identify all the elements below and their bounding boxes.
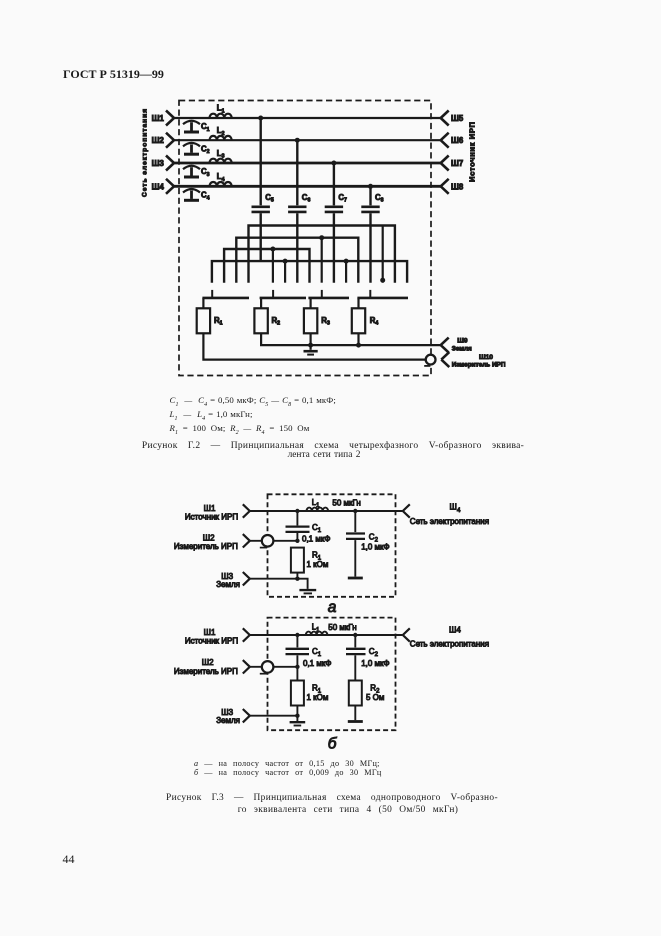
coaxial connector circle Sh10: [424, 355, 435, 366]
comb tooth on bus 4: [284, 261, 286, 283]
svg-text:Земля: Земля: [216, 580, 240, 589]
page header: [63, 67, 164, 82]
link bar to R1: [202, 290, 249, 298]
svg-text:0,1 мкФ: 0,1 мкФ: [303, 659, 331, 668]
inductor L1 (b): [306, 632, 328, 635]
inductor L2: [210, 136, 232, 140]
terminal Sh3 (b): [243, 709, 250, 722]
svg-text:C5: C5: [265, 193, 274, 204]
svg-text:Сеть электропитания: Сеть электропитания: [410, 639, 489, 648]
wire Sh2 to node C1/R1 (b): [250, 666, 298, 668]
junction bus4 right tooth: [344, 259, 349, 264]
junction Sh2/C1/R1 (b): [295, 665, 299, 669]
svg-text:Земля: Земля: [452, 346, 472, 353]
junction bus4 tooth: [283, 259, 288, 264]
terminal Sh1 (a): [243, 504, 250, 517]
terminal Sh2 (a): [243, 534, 250, 547]
junction C2 branch (b): [353, 633, 357, 637]
svg-text:L4: L4: [217, 172, 225, 183]
terminal Sh6: [441, 133, 449, 148]
svg-text:1 кОм: 1 кОм: [307, 693, 329, 702]
svg-text:Источник ИРП: Источник ИРП: [185, 636, 238, 645]
resistor R1 (b): [291, 667, 304, 716]
capacitor C1 (b): [286, 635, 310, 667]
capacitor C1 (a): [286, 511, 310, 541]
comb tooth on bus 2: [321, 238, 323, 283]
terminal Sh8: [441, 179, 449, 194]
wire Sh3 (b): [250, 715, 298, 717]
earth symbol (a): [297, 579, 316, 594]
svg-text:L3: L3: [217, 149, 225, 160]
svg-text:C2: C2: [369, 647, 379, 658]
capacitor C4: [183, 189, 200, 200]
terminal Sh1: [166, 111, 174, 126]
svg-text:Измеритель ИРП: Измеритель ИРП: [174, 542, 238, 551]
junction R3 on earth wire: [308, 343, 313, 348]
terminal Sh1 (b): [243, 628, 250, 641]
svg-text:Ш3: Ш3: [152, 159, 165, 168]
junction R1/Sh3 (b): [295, 714, 299, 718]
wire drop from phase 2 to C6: [296, 140, 298, 205]
junction bus2 tooth: [319, 235, 324, 240]
svg-text:C3: C3: [201, 167, 210, 178]
wire Sh2 to node C1/R1 (a): [250, 540, 298, 542]
wire R2/R4 to earth terminal Sh9: [261, 333, 441, 345]
wire drop from phase 1 to C5: [260, 118, 262, 205]
wire C5 to bus 4: [260, 213, 262, 261]
resistor R3: [304, 298, 317, 333]
earth symbol under R3: [304, 351, 318, 354]
chassis bar under C2 (a): [348, 577, 363, 580]
comb bus 2: [236, 238, 358, 283]
terminal Sh2 (b): [243, 660, 250, 673]
terminal Sh7: [441, 156, 449, 171]
svg-text:Ш2: Ш2: [203, 533, 215, 542]
terminal Sh10: [441, 352, 449, 367]
svg-text:1 кОм: 1 кОм: [307, 560, 329, 569]
wire R4 down: [357, 333, 359, 345]
svg-text:R4: R4: [370, 316, 379, 327]
junction C2 branch (a): [353, 509, 357, 513]
svg-text:C1: C1: [312, 523, 322, 534]
svg-text:Ш4: Ш4: [450, 503, 461, 515]
link bar to R3: [308, 290, 349, 298]
svg-text:Земля: Земля: [216, 716, 240, 725]
svg-text:C6: C6: [302, 193, 311, 204]
svg-text:R2: R2: [272, 316, 281, 327]
svg-text:1,0 мкФ: 1,0 мкФ: [361, 543, 389, 552]
junction phase3/C7: [331, 161, 336, 166]
wire phase 1 (terminal Sh1 to Sh5): [174, 117, 441, 119]
comb tooth on bus 3: [272, 249, 274, 283]
footnotes for figure G.3: [194, 760, 382, 777]
svg-text:Ш10: Ш10: [479, 354, 493, 361]
wire Sh3 (a): [250, 578, 298, 580]
svg-text:L1: L1: [217, 104, 225, 115]
svg-text:б: б: [328, 736, 338, 753]
terminal Sh4 (a): [403, 504, 410, 517]
inductor L4: [210, 182, 232, 186]
svg-text:L2: L2: [217, 126, 225, 137]
junction bus3 tooth: [270, 247, 275, 252]
svg-text:Ш1: Ш1: [152, 114, 165, 123]
dashed enclosure of network type 4 (band a): [268, 494, 396, 597]
svg-text:50 мкГн: 50 мкГн: [332, 499, 360, 508]
wire R3 to earth symbol: [310, 333, 312, 350]
earth symbol (b): [290, 716, 306, 726]
terminal Sh4: [166, 179, 174, 194]
svg-text:Сеть электропитания: Сеть электропитания: [410, 517, 489, 526]
junction C1 branch (b): [295, 633, 299, 637]
svg-text:C2: C2: [201, 144, 210, 155]
capacitor C5: [252, 207, 270, 212]
dashed enclosure of network type 4 (band b): [268, 618, 396, 731]
caption figure G.2: [120, 441, 546, 451]
svg-text:0,1 мкФ: 0,1 мкФ: [302, 535, 330, 544]
svg-text:50 мкГн: 50 мкГн: [328, 623, 356, 632]
svg-text:Измеритель ИРП: Измеритель ИРП: [452, 362, 506, 369]
coaxial connector circle Sh2 (a): [260, 535, 274, 548]
dashed enclosure of network type 2: [179, 101, 431, 376]
svg-text:C1: C1: [201, 122, 210, 133]
svg-text:Ш8: Ш8: [451, 182, 464, 191]
junction Sh2/C1/R1 (a): [295, 539, 299, 543]
link bar to R4: [357, 290, 408, 298]
svg-text:а: а: [328, 599, 337, 616]
svg-text:C8: C8: [375, 193, 384, 204]
wire phase 2 (terminal Sh2 to Sh6): [174, 139, 441, 141]
svg-text:Ш4: Ш4: [449, 626, 461, 635]
resistor R1: [197, 298, 210, 333]
svg-text:Ш2: Ш2: [202, 658, 214, 667]
capacitor C6: [288, 207, 306, 212]
wire drop from phase 4 to C8: [369, 186, 371, 205]
wire C7 through comb: [333, 213, 335, 283]
component values text block: [170, 396, 336, 438]
caption figure G.3: [119, 793, 545, 803]
terminal Sh2: [166, 133, 174, 148]
wire R1 to measuring connector Sh10: [203, 333, 425, 359]
wire phase 3 (terminal Sh3 to Sh7): [174, 162, 441, 165]
junction phase2/C6: [295, 138, 300, 143]
comb bus 3: [224, 249, 309, 283]
svg-text:Источник ИРП: Источник ИРП: [185, 513, 238, 522]
link bar to R2: [260, 290, 306, 298]
wire Sh1 to Sh4 (b): [250, 634, 403, 636]
svg-text:C7: C7: [338, 193, 347, 204]
terminal Sh9: [441, 338, 449, 353]
svg-text:Ш2: Ш2: [152, 136, 165, 145]
svg-text:Ш9: Ш9: [457, 338, 468, 345]
capacitor C3: [183, 166, 200, 177]
comb tooth on bus 4 right: [345, 261, 347, 283]
svg-text:C4: C4: [201, 191, 210, 202]
capacitor C2 (b): [346, 635, 366, 681]
terminal Sh3: [166, 156, 174, 171]
junction C1 branch (a): [295, 509, 299, 513]
terminal Sh3 (a): [243, 572, 250, 585]
wire Sh1 to Sh4 (a): [250, 510, 403, 512]
wire phase 4 (terminal Sh4 to Sh8): [174, 185, 441, 188]
wire drop from phase 3 to C7: [333, 163, 335, 205]
svg-text:Ш7: Ш7: [451, 159, 463, 168]
junction R1/Sh3 (a): [295, 577, 299, 581]
junction phase4/C8: [368, 184, 373, 189]
capacitor C2 (a): [346, 511, 365, 577]
comb bus 1: [249, 226, 395, 283]
contact dot on bus1 tooth tip: [380, 278, 385, 283]
inductor L3: [210, 159, 232, 163]
wire C8 through comb: [369, 213, 371, 283]
svg-text:1,0 мкФ: 1,0 мкФ: [361, 659, 389, 668]
coaxial connector circle Sh2 (b): [260, 661, 274, 674]
comb bus 4: [212, 261, 407, 283]
capacitor C7: [325, 207, 343, 212]
svg-text:Измеритель ИРП: Измеритель ИРП: [174, 667, 238, 676]
svg-text:R1: R1: [214, 316, 223, 327]
svg-text:Сеть электропитания: Сеть электропитания: [142, 108, 149, 197]
comb tooth on bus 1: [382, 226, 384, 283]
svg-text:Ш5: Ш5: [451, 114, 464, 123]
capacitor C1: [183, 121, 200, 132]
wire C6 through comb: [296, 213, 298, 283]
svg-text:Ш4: Ш4: [152, 182, 165, 191]
terminal Sh4 (b): [403, 628, 410, 641]
chassis bar under R2 (b): [348, 720, 363, 723]
inductor L1 (a): [307, 508, 329, 511]
page number: [63, 852, 75, 867]
inductor L1: [210, 114, 232, 118]
junction phase1/C5: [258, 116, 263, 121]
capacitor C8: [361, 207, 379, 212]
junction R4 on earth wire: [356, 343, 361, 348]
resistor R2: [254, 298, 267, 333]
svg-text:R3: R3: [321, 316, 330, 327]
svg-text:Ш6: Ш6: [451, 136, 464, 145]
terminal Sh5: [441, 111, 449, 126]
resistor R2 (b): [349, 681, 362, 721]
resistor R4: [352, 298, 365, 333]
svg-text:C1: C1: [312, 647, 322, 658]
svg-text:5 Ом: 5 Ом: [366, 693, 384, 702]
svg-text:Источник ИРП: Источник ИРП: [468, 121, 477, 182]
resistor R1 (a): [291, 548, 304, 579]
capacitor C2: [183, 143, 200, 154]
